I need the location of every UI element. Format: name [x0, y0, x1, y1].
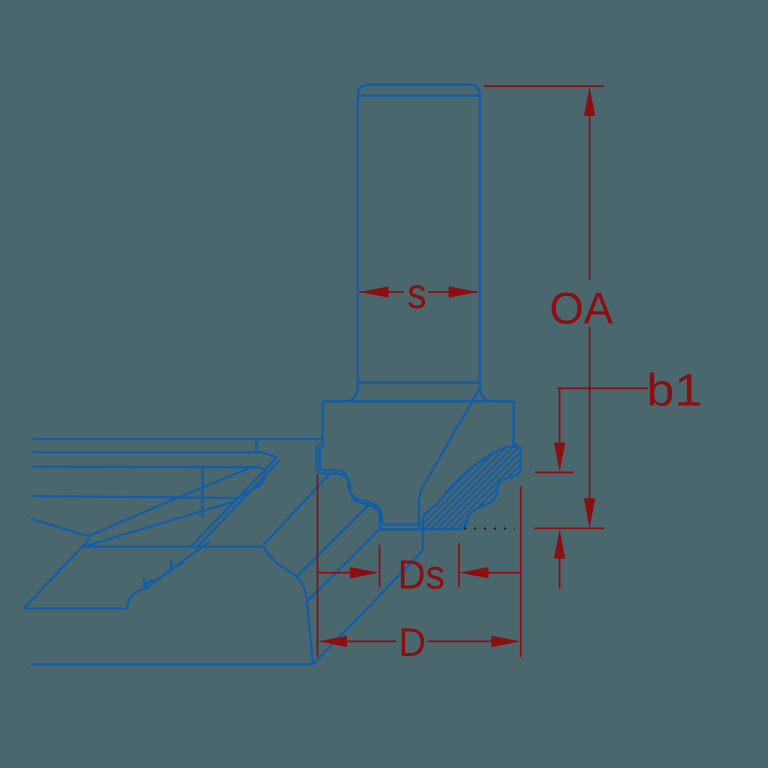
svg-text:Ds: Ds	[398, 553, 445, 598]
svg-text:OA: OA	[550, 284, 614, 333]
svg-text:b1: b1	[647, 366, 703, 416]
svg-text:D: D	[399, 621, 426, 665]
svg-text:s: s	[407, 269, 426, 317]
